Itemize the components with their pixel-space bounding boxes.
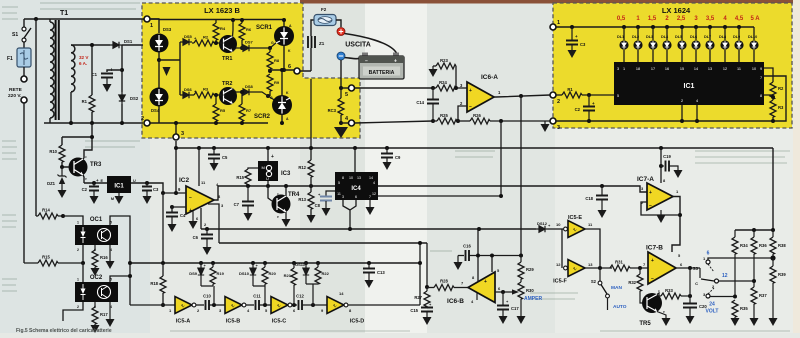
output wire xyxy=(495,291,512,293)
svg-text:14: 14 xyxy=(369,176,373,180)
trimmer R30 xyxy=(518,282,534,316)
svg-text:12: 12 xyxy=(723,67,727,71)
svg-text:R3: R3 xyxy=(778,105,784,110)
resistor R31 xyxy=(610,260,648,272)
svg-text:10: 10 xyxy=(752,67,756,71)
svg-text:Z1: Z1 xyxy=(319,41,325,46)
svg-text:R1: R1 xyxy=(567,87,573,92)
capacitor C5 xyxy=(208,146,228,163)
wire secondary bottom rail xyxy=(44,122,143,124)
IC2 pin2 drop to bus228 xyxy=(201,208,207,229)
resistor R39 xyxy=(770,258,786,318)
capacitor C2 xyxy=(575,93,595,121)
ground for R23 xyxy=(429,66,438,77)
op-amp IC7-B xyxy=(646,245,683,285)
svg-text:6: 6 xyxy=(288,64,291,70)
svg-text:DS1: DS1 xyxy=(124,39,133,44)
resistor R14 xyxy=(36,208,63,220)
svg-text:R15: R15 xyxy=(42,255,50,260)
svg-text:R32: R32 xyxy=(628,280,636,285)
bus y228 xyxy=(201,228,536,230)
svg-text:C8: C8 xyxy=(315,203,321,208)
wire xyxy=(122,45,143,92)
wire R10 top tee xyxy=(62,136,92,138)
svg-text:RETE: RETE xyxy=(9,87,23,93)
svg-text:RC3: RC3 xyxy=(328,108,337,113)
svg-text:C19: C19 xyxy=(663,154,671,159)
svg-text:220 V.: 220 V. xyxy=(8,93,21,99)
svg-text:17: 17 xyxy=(651,67,655,71)
capacitor C14 xyxy=(416,88,439,121)
svg-text:R2: R2 xyxy=(778,86,784,91)
svg-text:TR1: TR1 xyxy=(222,56,232,62)
svg-text:IC4: IC4 xyxy=(351,186,361,192)
svg-text:DL3: DL3 xyxy=(646,35,653,39)
resistor R15 xyxy=(236,168,258,186)
svg-text:DS9: DS9 xyxy=(189,271,198,276)
capacitor C3 xyxy=(142,183,159,196)
node 2 xyxy=(141,116,150,126)
output down tie xyxy=(585,229,600,268)
wire to OC1 pin1 xyxy=(63,216,83,225)
transistor TR4 xyxy=(266,181,300,219)
IC4 pin12 line xyxy=(378,195,501,197)
svg-text:11: 11 xyxy=(337,192,341,196)
svg-text:R5: R5 xyxy=(220,108,226,113)
svg-text:R1: R1 xyxy=(82,99,88,104)
svg-text:R14: R14 xyxy=(42,208,50,213)
voltage ref IC3 xyxy=(258,146,291,181)
transistor TR5 xyxy=(639,289,666,327)
resistor R17 xyxy=(92,302,108,325)
svg-text:R31: R31 xyxy=(615,260,623,265)
wire pin2 xyxy=(458,106,467,121)
svg-text:IC6-B: IC6-B xyxy=(447,298,464,305)
LX1623B yellow module region xyxy=(142,3,360,138)
capacitor C18 xyxy=(585,184,608,210)
diode DS2 xyxy=(119,92,139,104)
svg-text:+: + xyxy=(110,68,113,74)
capacitor C20 xyxy=(683,296,707,316)
svg-text:VOLT: VOLT xyxy=(706,309,719,315)
svg-text:DS2: DS2 xyxy=(130,96,139,101)
OC2 pin4 ground xyxy=(106,302,115,327)
resistor R10 xyxy=(49,137,65,167)
svg-text:+: + xyxy=(469,88,472,94)
svg-text:LX 1623 B: LX 1623 B xyxy=(204,6,240,15)
timer IC4 xyxy=(335,146,378,200)
svg-text:e: e xyxy=(85,177,87,181)
svg-text:C7: C7 xyxy=(234,202,240,207)
svg-text:∿: ∿ xyxy=(180,304,185,310)
svg-text:LX 1624: LX 1624 xyxy=(662,6,691,15)
wire R26 feedback drop xyxy=(500,121,502,196)
resistor R25 xyxy=(433,113,457,124)
OC1 pin5 to rail xyxy=(110,216,130,305)
svg-text:16: 16 xyxy=(665,67,669,71)
thyristor SCR2 xyxy=(254,91,292,121)
resistor R24 xyxy=(431,80,467,91)
svg-text:R12: R12 xyxy=(298,165,306,170)
resistor R9 xyxy=(267,74,280,96)
wire IC1 out xyxy=(131,183,163,193)
svg-text:6 A.: 6 A. xyxy=(79,61,87,66)
svg-text:R34: R34 xyxy=(740,243,748,248)
resistor R18 xyxy=(150,263,166,305)
svg-text:Fig.5 Schema elettrico del car: Fig.5 Schema elettrico del caricabatteri… xyxy=(16,328,112,333)
resistor R28 xyxy=(427,279,468,291)
transistor TR3 xyxy=(62,155,102,183)
svg-text:5: 5 xyxy=(345,92,348,98)
resistor R13 xyxy=(298,177,314,215)
diode DS1 xyxy=(110,39,133,48)
svg-text:DZ1: DZ1 xyxy=(47,181,56,186)
svg-text:R3: R3 xyxy=(203,87,209,92)
svg-text:USCITA: USCITA xyxy=(345,42,371,49)
svg-text:9: 9 xyxy=(760,67,762,71)
svg-text:1: 1 xyxy=(77,221,79,225)
svg-text:R8: R8 xyxy=(274,58,280,63)
svg-text:C16: C16 xyxy=(463,244,471,249)
svg-text:4: 4 xyxy=(373,181,375,185)
svg-text:–: – xyxy=(484,295,487,301)
svg-text:2: 2 xyxy=(681,99,683,103)
IC7-A pin4 ground xyxy=(657,210,666,223)
capacitor C13 xyxy=(363,261,385,280)
svg-text:1: 1 xyxy=(557,20,560,26)
svg-text:F2: F2 xyxy=(321,7,327,12)
wire node4 to R25 xyxy=(355,121,433,123)
svg-text:12: 12 xyxy=(722,273,728,279)
svg-text:IC1: IC1 xyxy=(114,184,124,190)
svg-text:+: + xyxy=(651,258,654,264)
diode DS8 xyxy=(233,84,277,101)
capacitor C16 xyxy=(463,244,471,262)
ground xyxy=(103,84,112,92)
resistor R4 xyxy=(213,20,226,43)
svg-text:C14: C14 xyxy=(416,100,424,105)
svg-text:R37: R37 xyxy=(759,293,767,298)
svg-text:IC5-C: IC5-C xyxy=(272,319,286,325)
minus terminal xyxy=(337,52,345,60)
svg-text:c: c xyxy=(277,192,279,196)
wire DS3-DS4 with arrow xyxy=(158,52,160,88)
svg-text:15: 15 xyxy=(680,67,684,71)
node 1 xyxy=(550,20,560,30)
svg-text:1,5: 1,5 xyxy=(648,16,657,22)
svg-text:TR2: TR2 xyxy=(222,81,232,87)
svg-text:R13: R13 xyxy=(298,197,306,202)
svg-text:1: 1 xyxy=(77,278,79,282)
capacitor C19 xyxy=(659,154,678,172)
svg-text:c: c xyxy=(658,289,660,293)
svg-text:R23: R23 xyxy=(440,58,448,63)
resistor R15 xyxy=(24,255,83,267)
wire mains top xyxy=(24,19,159,27)
bus y243 xyxy=(219,242,427,244)
node 3 xyxy=(173,131,184,140)
resistor R21 xyxy=(284,261,297,305)
svg-text:C10: C10 xyxy=(203,294,211,299)
diode DS11 / resistor R22 pullup xyxy=(295,261,309,284)
svg-text:C: C xyxy=(695,281,698,286)
bus243 corner down xyxy=(426,243,428,287)
svg-text:BATTERIA: BATTERIA xyxy=(369,70,395,76)
svg-text:R10: R10 xyxy=(49,149,57,154)
svg-text:3,5: 3,5 xyxy=(706,16,715,22)
svg-text:R39: R39 xyxy=(778,272,786,277)
svg-text:C11: C11 xyxy=(253,294,261,299)
svg-text:14: 14 xyxy=(694,67,698,71)
svg-text:M: M xyxy=(111,197,114,201)
plus terminal xyxy=(337,28,345,36)
svg-text:R6: R6 xyxy=(246,27,252,32)
op-amp IC6-A xyxy=(460,74,501,112)
svg-text:13: 13 xyxy=(588,262,593,267)
wire to OC2 pin1 xyxy=(82,263,84,282)
wire output to node2 of LX1624 xyxy=(494,95,550,97)
svg-text:G: G xyxy=(271,41,274,45)
svg-text:3: 3 xyxy=(557,125,560,131)
svg-text:OC2: OC2 xyxy=(90,275,103,281)
resistor R37 xyxy=(751,287,767,318)
svg-text:IC7-A: IC7-A xyxy=(637,176,654,183)
fuse F1 xyxy=(7,48,31,67)
svg-text:13: 13 xyxy=(357,176,361,180)
op-amp IC6-B xyxy=(447,268,501,305)
svg-text:C3: C3 xyxy=(153,187,159,192)
svg-text:IC5-E: IC5-E xyxy=(568,215,582,221)
svg-text:SCR2: SCR2 xyxy=(254,114,271,120)
C16 ground xyxy=(454,256,463,271)
capacitor C3 xyxy=(566,25,586,50)
svg-text:+: + xyxy=(96,178,99,183)
input tie line xyxy=(561,229,563,268)
svg-text:DL7: DL7 xyxy=(704,35,711,39)
signal line xyxy=(130,304,175,306)
svg-text:+: + xyxy=(484,279,487,285)
svg-text:∿: ∿ xyxy=(276,304,281,310)
wire IC6-A out drop xyxy=(520,96,522,255)
svg-text:S1: S1 xyxy=(12,32,18,38)
svg-text:4,5: 4,5 xyxy=(735,16,744,22)
wire + curve to battery xyxy=(345,34,397,54)
zener DZ1 xyxy=(47,167,66,190)
svg-text:IC1: IC1 xyxy=(684,83,695,90)
wire C1 tee xyxy=(107,70,122,72)
svg-text:4: 4 xyxy=(696,99,698,103)
RETE 220V label xyxy=(8,87,23,99)
svg-text:R28: R28 xyxy=(440,279,448,284)
OC1 pin2 down xyxy=(82,245,84,263)
svg-text:3: 3 xyxy=(342,195,344,199)
RETE terminal bottom xyxy=(21,97,27,103)
ground xyxy=(58,190,67,198)
svg-text:DS5: DS5 xyxy=(184,34,193,39)
svg-text:DS12: DS12 xyxy=(537,221,548,226)
resistor R1 xyxy=(556,87,614,98)
svg-text:R21: R21 xyxy=(284,273,292,278)
svg-text:IC7-B: IC7-B xyxy=(646,245,663,252)
bus y230 xyxy=(735,229,773,231)
pin8 drop from bus228 xyxy=(477,229,479,282)
svg-text:12: 12 xyxy=(372,192,376,196)
svg-text:∿: ∿ xyxy=(572,228,577,234)
svg-text:SCR1: SCR1 xyxy=(256,25,273,31)
transistor TR1 xyxy=(219,30,237,62)
IC4 pin4 to bus186 xyxy=(378,186,647,192)
svg-text:10: 10 xyxy=(349,176,353,180)
resistor R33 xyxy=(661,288,690,299)
svg-text:S3: S3 xyxy=(692,266,698,271)
svg-text:7: 7 xyxy=(760,76,762,80)
svg-text:+: + xyxy=(394,59,397,65)
wire xyxy=(23,67,25,76)
svg-text:IC6-A: IC6-A xyxy=(481,74,498,81)
svg-text:e: e xyxy=(277,215,279,219)
svg-text:–: – xyxy=(651,276,654,282)
svg-text:3: 3 xyxy=(181,131,184,137)
node junction xyxy=(34,17,38,21)
svg-text:F1: F1 xyxy=(7,56,13,62)
IC7-B output xyxy=(676,267,700,269)
node 2 xyxy=(550,92,560,105)
node 1 xyxy=(144,16,153,29)
svg-text:R18: R18 xyxy=(150,281,158,286)
wire mains down line xyxy=(35,19,37,216)
svg-text:R24: R24 xyxy=(439,80,447,85)
svg-text:12: 12 xyxy=(556,262,561,267)
pin5 stub xyxy=(491,256,493,273)
svg-text:DL1: DL1 xyxy=(617,35,624,39)
svg-text:6: 6 xyxy=(707,251,710,257)
svg-text:R29: R29 xyxy=(526,267,534,272)
svg-text:+: + xyxy=(592,101,595,106)
svg-text:TR3: TR3 xyxy=(90,162,102,168)
svg-text:DL10: DL10 xyxy=(748,35,757,39)
svg-text:R19: R19 xyxy=(217,271,225,276)
wire node3 drop xyxy=(175,123,177,134)
svg-text:R9: R9 xyxy=(274,80,280,85)
resistor R38 xyxy=(770,230,786,258)
capacitor C15 xyxy=(410,302,433,317)
resistor R35 xyxy=(732,300,748,318)
node 5 xyxy=(341,85,355,98)
diode DS4 xyxy=(150,88,169,114)
wire secondary top xyxy=(71,44,110,46)
svg-text:OC1: OC1 xyxy=(90,217,103,223)
diode DS10 / resistor R20 pullup xyxy=(239,261,259,286)
RETE terminal top xyxy=(21,76,27,82)
svg-text:2,5: 2,5 xyxy=(677,16,686,22)
wire DS5/DS6 feed xyxy=(159,42,180,95)
capacitor C9 xyxy=(381,146,401,162)
svg-text:R15: R15 xyxy=(236,175,244,180)
svg-text:3: 3 xyxy=(617,67,619,71)
wire - curve to battery xyxy=(345,55,366,59)
capacitor C11 xyxy=(253,294,261,311)
resistor R7 xyxy=(239,92,252,123)
resistor R27 xyxy=(414,287,430,308)
ground stub before node3 xyxy=(541,121,550,132)
wire node6 xyxy=(268,69,294,71)
resistor R6 xyxy=(239,20,252,48)
resistor R12 column from node6 line xyxy=(310,79,312,160)
switch S2 MAN/AUTO xyxy=(591,268,627,310)
IC4 pin7 ground xyxy=(366,200,375,215)
inverter IC5-B xyxy=(219,297,250,325)
svg-text:IC3: IC3 xyxy=(281,171,291,177)
top rail xyxy=(556,26,754,28)
capacitor C2 xyxy=(82,178,99,196)
OC1 pin4 ground xyxy=(106,245,115,269)
svg-text:DS7: DS7 xyxy=(245,40,254,45)
node 4 xyxy=(339,116,355,126)
feedback riser to bus243 xyxy=(419,243,421,305)
OC2 pin2 stub xyxy=(63,302,83,321)
battery BATTERIA xyxy=(359,53,404,80)
svg-text:1: 1 xyxy=(623,67,625,71)
svg-text:+: + xyxy=(271,154,274,160)
bus1 corner down to ladder xyxy=(772,148,774,230)
diode DS5 xyxy=(180,34,197,45)
svg-text:C3: C3 xyxy=(580,42,586,47)
svg-text:C18: C18 xyxy=(585,196,593,201)
resistor R8 xyxy=(267,48,280,71)
svg-text:R35: R35 xyxy=(740,306,748,311)
svg-text:10: 10 xyxy=(556,222,561,227)
svg-text:C15: C15 xyxy=(410,308,418,313)
node 3 xyxy=(550,118,560,131)
svg-text:DS6: DS6 xyxy=(184,87,193,92)
resistor R3 xyxy=(192,87,219,99)
svg-text:32 V: 32 V xyxy=(79,55,89,60)
svg-text:DS3: DS3 xyxy=(163,27,172,32)
resistor R29 xyxy=(518,256,534,283)
svg-text:R36: R36 xyxy=(759,243,767,248)
optocoupler OC1 xyxy=(75,217,118,252)
IC2 pin6 ground stub xyxy=(189,211,200,229)
svg-text:DL9: DL9 xyxy=(733,35,740,39)
op-amp IC7-A xyxy=(637,146,679,210)
svg-text:11: 11 xyxy=(737,67,741,71)
switch position wires xyxy=(708,258,773,260)
svg-text:∿: ∿ xyxy=(230,304,235,310)
svg-text:R30: R30 xyxy=(526,288,534,293)
red current scale labels xyxy=(617,16,760,22)
svg-text:IC5-A: IC5-A xyxy=(176,319,190,325)
wire xyxy=(121,104,123,123)
svg-text:R4: R4 xyxy=(220,26,226,31)
svg-text:∿: ∿ xyxy=(332,304,337,310)
IC7-A output and feedback loop xyxy=(672,197,680,253)
svg-text:–: – xyxy=(469,104,472,110)
svg-text:DS8: DS8 xyxy=(245,84,254,89)
svg-text:C13: C13 xyxy=(377,270,385,275)
svg-text:C17: C17 xyxy=(511,306,519,311)
svg-text:–: – xyxy=(365,59,368,65)
svg-text:18: 18 xyxy=(636,67,640,71)
svg-text:14: 14 xyxy=(339,291,344,296)
resistor R2 xyxy=(770,82,784,99)
diode DS9 / resistor R19 pullup xyxy=(189,261,206,286)
svg-text:c: c xyxy=(85,155,87,159)
wire node6 to Z1 column xyxy=(300,48,311,71)
inverter IC5-C xyxy=(265,297,296,325)
svg-text:C2: C2 xyxy=(82,187,88,192)
svg-text:0,5: 0,5 xyxy=(617,16,626,22)
svg-text:IC2: IC2 xyxy=(179,177,190,184)
